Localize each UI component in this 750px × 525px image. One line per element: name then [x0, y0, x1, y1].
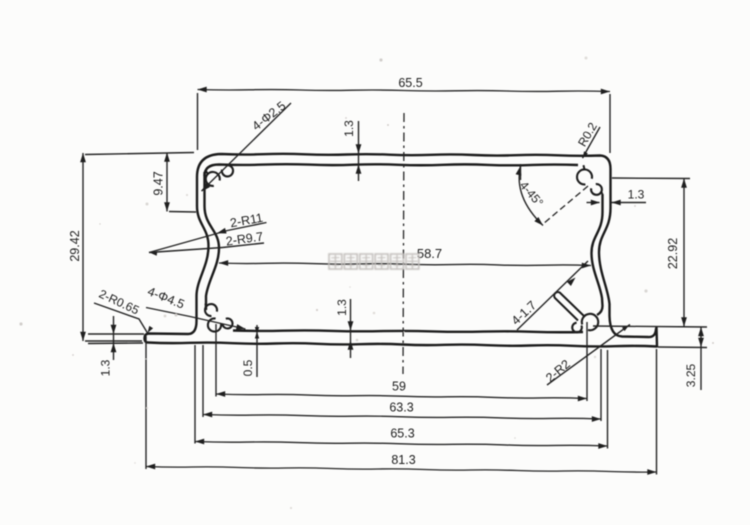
screw boss bottom-right (screw circle) [582, 314, 598, 330]
screw boss top-right (curl pair) [577, 165, 602, 195]
label 2-R9.7 with leader [149, 229, 264, 255]
dimension 65.3 [195, 345, 608, 449]
dimension 0.5 (floor step) [241, 325, 259, 377]
profile inner bottom floor line [233, 330, 583, 332]
label 4-1.7 with leader [509, 261, 588, 330]
45-deg corner centerline (dashed) [543, 186, 588, 224]
dimension 3.25 (right flange height) [658, 327, 707, 390]
profile outer outline [145, 154, 658, 347]
svg-text:9.47: 9.47 [152, 171, 166, 195]
profile inner right wall [592, 194, 603, 315]
svg-text:63.3: 63.3 [389, 401, 413, 415]
dimension 1.3 (right wall thickness) [587, 188, 647, 206]
screw boss bottom-left (curl group) [205, 304, 232, 332]
label 4-Φ4.5 with leader [146, 284, 246, 329]
svg-text:1.3: 1.3 [342, 120, 356, 137]
screw boss top-left (curl pair) [206, 165, 234, 186]
dimension 1.3 (bottom wall thickness) [335, 299, 353, 358]
extension line right flange top [593, 326, 707, 327]
svg-text:65.3: 65.3 [390, 427, 414, 441]
svg-text:1.3: 1.3 [628, 188, 645, 202]
svg-text:29.42: 29.42 [68, 230, 82, 261]
dimension 63.3 [203, 345, 601, 422]
dimension 1.3 (left flange thickness) [88, 316, 144, 376]
watermark (faint gray text) [329, 254, 419, 269]
screw boss bottom-right 45-deg fin [554, 292, 584, 320]
svg-text:81.3: 81.3 [391, 453, 415, 467]
dimension 9.47 (upper left) [152, 153, 197, 213]
profile inner top wall line [205, 164, 579, 176]
svg-text:0.5: 0.5 [241, 359, 255, 376]
dimension 59 (bottom hole spacing) [216, 322, 587, 401]
paper speckle noise [19, 57, 714, 510]
svg-text:59: 59 [392, 380, 406, 394]
label 2-R2 with leader [543, 325, 630, 386]
label 4-Φ2.5 with leader [202, 99, 292, 192]
dimension 1.3 (top wall thickness) [342, 120, 361, 181]
screw boss bottom-right floor hook [572, 323, 582, 333]
label 2-R0.65 with leader [94, 287, 153, 333]
dimension 65.5 (top width) [198, 76, 611, 153]
label 2-R11 with leader [149, 211, 267, 253]
angular dimension 4-45° with arc [516, 164, 547, 226]
profile inner left wall [205, 172, 220, 310]
svg-text:22.92: 22.92 [666, 238, 680, 269]
svg-text:58.7: 58.7 [417, 246, 442, 261]
svg-text:65.5: 65.5 [398, 76, 422, 90]
dimension 22.92 (right height) [612, 178, 690, 327]
dimension 29.42 (left height) [68, 153, 194, 342]
dimension 81.3 (overall bottom width) [146, 336, 657, 475]
svg-text:1.3: 1.3 [335, 299, 349, 316]
svg-text:1.3: 1.3 [99, 359, 113, 376]
dimension 58.7 (inner width) [219, 246, 591, 268]
vertical centerline (dashed) [403, 113, 404, 374]
svg-text:3.25: 3.25 [684, 363, 698, 387]
label R0.2 with leader [575, 120, 600, 159]
